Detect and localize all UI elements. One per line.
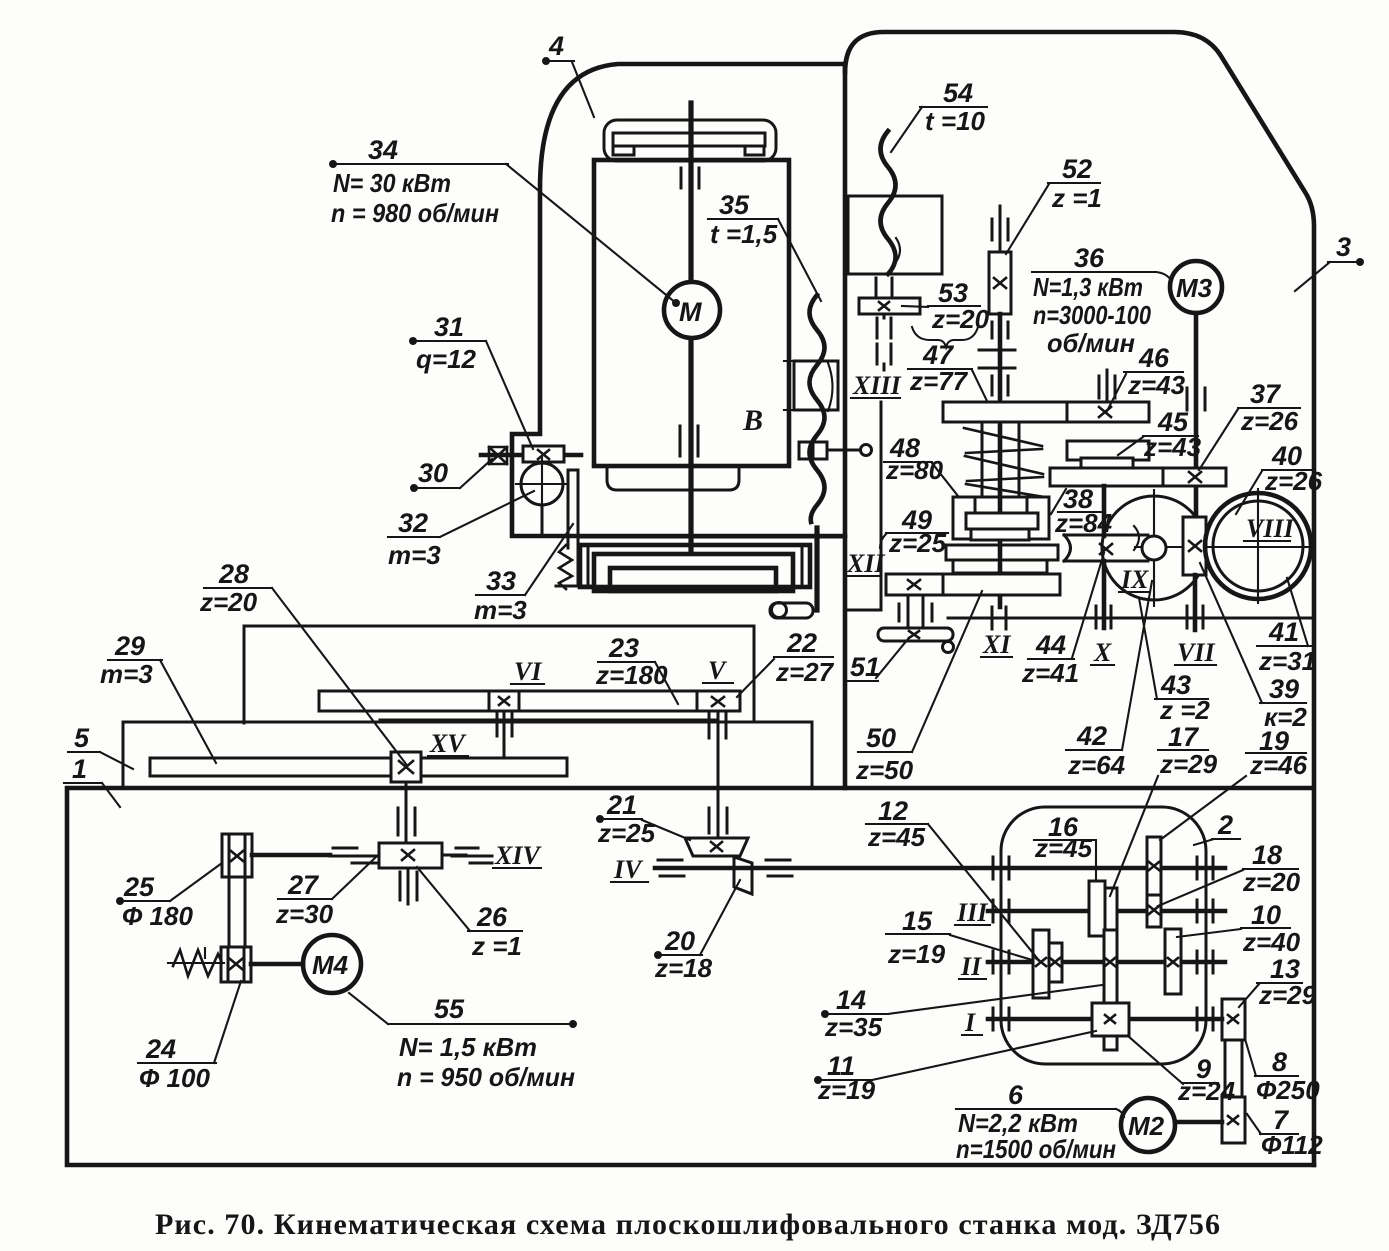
svg-text:IX: IX [1120,565,1149,594]
gear 9 cross [1105,1015,1115,1023]
spring rod left [981,422,984,497]
label 19 [1160,726,1308,840]
svg-text:z=27: z=27 [775,657,835,687]
svg-text:8: 8 [1272,1047,1287,1077]
gear 44 cross [1100,544,1112,554]
svg-text:36: 36 [1074,243,1105,273]
handwheel shaft wire [481,453,581,458]
gear divider 47/46 [1066,402,1069,422]
svg-text:15: 15 [902,906,933,936]
label 3 [1295,232,1363,291]
shaft below nut wire [405,782,408,843]
label 42 [1066,581,1152,780]
svg-text:21: 21 [606,790,637,820]
pulley 24 box [221,947,251,982]
label 29 [100,631,216,763]
shaft label VI [511,657,544,686]
pulley 25 box [222,834,252,877]
svg-text:z=77: z=77 [909,366,969,396]
label 39 [1200,563,1307,732]
label 49 [880,505,948,558]
svg-text:z =1: z =1 [471,931,522,961]
handwheel VIII outer circle [1205,493,1311,599]
shaft XIII bearing pairs [877,318,891,364]
shaft XII sleeve wires [908,595,923,628]
grinding head housing 3 outline [845,32,1314,1165]
svg-text:41: 41 [1268,617,1299,647]
label 4 [544,31,595,117]
gears 47 and 46 bar [943,402,1149,422]
spindle upper bearing [681,168,699,188]
shaft III wire [988,909,1225,914]
gear 52 upper bearing [992,219,1008,240]
clutch 48 hatched beam [975,497,1027,513]
gear 52 shaft stub [999,206,1002,252]
shaft IV break dashes left [658,860,684,876]
svg-text:Ф 100: Ф 100 [139,1063,210,1093]
shaft II wire [988,960,1225,965]
clutch 48 hatched cup right [1027,497,1049,539]
svg-text:z=19: z=19 [817,1075,876,1105]
gear cluster 12/15 boxes [1033,930,1049,998]
wheelhead housing B [594,160,789,466]
label 15 [886,906,1032,969]
label 31 [411,312,534,449]
label 11 [816,1031,1097,1105]
svg-text:z=46: z=46 [1249,750,1308,780]
label 34 [331,135,679,306]
shaft VII wire [1193,575,1198,630]
svg-text:z=84: z=84 [1054,508,1113,538]
svg-text:z=35: z=35 [824,1012,883,1042]
svg-text:N= 30 кВт: N= 30 кВт [333,168,451,198]
gear VI cross [499,697,509,705]
label 26 [417,867,522,961]
shaft XI lower bearing [992,607,1006,629]
shaft III bearings [993,900,1213,922]
svg-text:VIII: VIII [1246,514,1295,543]
label 27 [275,857,376,929]
gear 52 box [989,252,1011,314]
table rack 23 bar [319,691,740,711]
shaft XIV stub right [442,854,466,857]
svg-text:М2: М2 [1128,1111,1165,1141]
worm gear 26 box [379,843,442,868]
svg-text:z=20: z=20 [931,304,990,334]
label 43 [1139,598,1210,725]
gear 26 cross [402,850,414,860]
svg-text:Ф112: Ф112 [1261,1130,1323,1160]
label 9 [1128,1036,1236,1106]
spindle shaft wire [688,103,693,553]
cluster 19/18 divider [1147,894,1161,897]
gear 9 lower hub [1104,1036,1117,1050]
svg-text:z=30: z=30 [275,899,334,929]
bevel 21 cross [711,842,722,851]
pulley 24 cross [230,959,242,969]
motor M3 shaft bearing [1187,388,1205,410]
gear 31 cross [538,450,549,459]
motor M4 shaft wire [251,962,303,967]
shaft label XV [428,729,468,758]
speed gearbox 2 housing [1001,807,1206,1064]
svg-text:n=3000-100: n=3000-100 [1033,300,1151,330]
pulley 25 rim lines [229,834,245,877]
gear cluster 19/18 box [1147,837,1161,927]
svg-text:3: 3 [1336,232,1351,262]
nut 28 box [391,752,421,782]
svg-text:z=180: z=180 [595,660,668,690]
svg-text:22: 22 [786,628,817,658]
gear VI box divider [489,691,519,711]
clutch 48 hatched cup left [953,497,975,539]
label 8 [1245,1039,1320,1105]
shaft II bearings [993,951,1213,973]
column housing 4 outline [512,64,845,536]
label 33 [474,524,573,625]
feed gearbox housing wall [512,433,540,436]
svg-text:30: 30 [418,458,448,488]
crank 51 cross [909,631,919,638]
svg-text:m=3: m=3 [474,595,527,625]
shaft label VIII [1244,514,1295,543]
shaft XII bearing ticks [899,604,932,621]
label 13 [1239,954,1317,1010]
svg-text:50: 50 [866,723,896,753]
dog knob circle [861,445,872,456]
gears 38 and 37 bar [1050,468,1226,486]
gears 49 and 50 bar [886,574,1060,595]
shaft label X [1091,638,1114,667]
label 22 [737,628,835,697]
svg-text:z =2: z =2 [1159,695,1210,725]
label 17 [1110,722,1218,896]
svg-text:z=41: z=41 [1021,658,1079,688]
svg-text:М3: М3 [1176,273,1213,303]
brace 53-47 [912,327,978,347]
svg-text:VI: VI [514,657,542,686]
svg-text:t =1,5: t =1,5 [710,219,778,249]
svg-text:об/мин: об/мин [1047,328,1135,358]
gear 9 box [1092,1003,1129,1036]
svg-text:z=29: z=29 [1258,980,1317,1010]
svg-text:33: 33 [486,566,516,596]
worm screw 54 wavy wire [881,131,896,274]
worm wheel 32 circle [521,463,563,505]
spring rod right [1018,422,1021,497]
column right edge wire [843,64,848,788]
shaft IV right bearing [1197,857,1213,879]
shaft XI mid bearing [992,376,1008,395]
svg-text:z=19: z=19 [887,939,946,969]
gear 37 cross [1189,472,1201,482]
worm 26 lower bearing [400,868,417,904]
svg-text:28: 28 [218,559,249,589]
svg-text:Рис. 70. Кинематическая схе: Рис. 70. Кинематическая схема плоскошлиф… [155,1208,1221,1241]
svg-text:14: 14 [836,985,866,1015]
motor M4 circle [303,935,361,993]
worm wheel IX circle [1102,496,1206,600]
svg-text:23: 23 [608,633,639,663]
label 12 [866,796,1037,958]
label 25 [118,863,223,931]
svg-text:z=26: z=26 [1264,466,1323,496]
shaft IV break dashes right [766,860,792,876]
svg-text:2: 2 [1217,810,1233,840]
svg-text:27: 27 [287,870,320,900]
coupling 30 [489,447,507,464]
worm wheel IX center vertical [1153,490,1155,606]
shaft VII bearing [1187,606,1203,628]
label 38 [1051,484,1139,550]
label 16 [1034,812,1096,880]
label 18 [1158,840,1301,906]
svg-text:XV: XV [429,729,467,758]
svg-text:N=1,3 кВт: N=1,3 кВт [1033,272,1143,302]
clutch 48 inner box lower [971,529,1029,540]
gear 15 box [1049,943,1062,982]
worm wheel 32 crosshair [516,458,568,512]
shaft X bearing [1096,606,1111,628]
handwheel VIII center vertical [1257,489,1259,603]
pulley 25 cross [231,851,243,861]
label 54 [891,78,987,152]
shaft XIV break dashes right [452,848,492,863]
cluster 12/15 crosses [1036,958,1060,966]
column bottom rail wire [578,536,845,539]
brake spring rod [168,948,224,963]
shaft V lower bearing [709,808,727,833]
svg-text:20: 20 [664,926,695,956]
belt 13-7 wires [1225,1040,1242,1097]
wheel guard outer box [580,545,810,587]
shaft VIII center line [1135,546,1312,548]
motor M3 circle [1170,261,1222,313]
label 20 [654,880,740,983]
svg-text:z=20: z=20 [199,587,258,617]
svg-text:52: 52 [1062,154,1092,184]
svg-text:z=50: z=50 [855,755,914,785]
rack spring 33 zigzag [559,545,572,589]
svg-text:z=18: z=18 [654,953,713,983]
label 50 [855,591,982,785]
label 53 [902,278,990,334]
label 45 [1118,407,1202,462]
label 1 [64,754,120,807]
clutch 48 inner box [966,513,1038,529]
handwheel VIII inner circle [1213,501,1303,591]
svg-text:10: 10 [1251,900,1281,930]
shaft X wire [1102,561,1107,628]
svg-text:5: 5 [74,723,90,753]
svg-text:z =1: z =1 [1051,183,1102,213]
label 32 [388,491,534,570]
bed housing 1 outline [67,788,1314,1165]
shaft XI upper wire [998,314,1003,607]
feed screw XV bar [150,758,567,776]
svg-text:1: 1 [72,754,87,784]
svg-text:I: I [964,1008,976,1037]
clutch 39 box [1183,517,1206,575]
svg-text:39: 39 [1269,674,1299,704]
label 36 [1032,243,1171,358]
gear 46 shaft stub [1106,370,1109,402]
shaft IV left bearing [993,857,1009,879]
sleeve cross [1105,958,1115,966]
shaft VI bearing [497,714,512,736]
svg-text:34: 34 [368,135,398,165]
wheel guard inner wall left [587,545,590,587]
spindle lower bearing [680,426,698,456]
pulley 7 box [1222,1097,1245,1143]
bevel gear 21 [685,838,748,856]
shaft I wire [988,1017,1222,1022]
label 24 [138,981,241,1093]
wheelhead bottom cup [607,466,739,490]
svg-text:n = 950 об/мин: n = 950 об/мин [397,1062,575,1092]
clutch 39 cross [1189,541,1201,551]
svg-text:29: 29 [114,631,145,661]
svg-text:z=40: z=40 [1242,927,1301,957]
label 5 [68,723,133,769]
shaft IV wire [655,866,1225,871]
svg-text:N= 1,5 кВт: N= 1,5 кВт [399,1032,537,1062]
svg-text:32: 32 [398,508,428,538]
pulley 24 rim lines [228,947,244,982]
gear 31 box [523,446,564,462]
gear 44 sleeve bar [1064,535,1148,561]
worm 54 side arc [896,238,900,262]
svg-text:М: М [679,297,702,327]
pulley 7 cross [1228,1116,1238,1124]
svg-text:III: III [956,898,988,927]
svg-text:54: 54 [943,78,973,108]
gear 46 cross [1099,407,1111,417]
leadscrew 35 wavy wire [810,295,825,522]
grinding wheel middle box [594,554,793,591]
label 28 [199,559,406,764]
svg-text:44: 44 [1035,630,1066,660]
gear 53 cross [879,302,889,310]
pulley 13 box [1222,999,1245,1040]
svg-text:37: 37 [1250,379,1282,409]
label 30 [412,458,493,491]
svg-text:XI: XI [982,630,1011,659]
shaft label XIII [851,371,902,400]
grinding wheel inner box [610,568,776,591]
gear 52 lower bearing [992,322,1008,338]
dog connector box [799,442,827,459]
shaft label IV [611,855,648,884]
clutch spring zigzag [964,428,1044,497]
svg-text:z=20: z=20 [1242,867,1301,897]
belt 25-24 wires [229,877,245,947]
housing 3 internal wall bottom [948,617,1314,620]
label 37 [1199,379,1300,470]
lube tank box [848,196,942,274]
half clutch plate lower [953,560,1047,573]
svg-text:z=26: z=26 [1240,406,1299,436]
label 21 [597,790,690,848]
leadscrew handle circle [772,603,787,618]
shaft label XIV [493,841,542,870]
svg-text:z=29: z=29 [1159,749,1218,779]
svg-text:М4: М4 [312,950,349,980]
label 14 [823,985,1103,1042]
svg-text:z=24: z=24 [1177,1076,1236,1106]
gear divider 38/37 [1162,468,1165,486]
label 46 [1106,343,1186,413]
half clutch plate upper [946,545,1058,560]
shaft I bearings [993,1008,1213,1030]
wheel guard inner wall right [801,545,804,587]
label 23 [595,633,678,704]
shaft label III [955,898,990,927]
svg-text:XII: XII [846,549,885,578]
svg-text:X: X [1093,638,1112,667]
gear 10 cross [1168,958,1178,966]
label 55 [349,993,576,1092]
shaft XIII wire [881,314,884,610]
leadscrew nut bracket [794,361,838,410]
worm wheel 32 shaft stub [541,505,544,536]
motor M2 circle [1121,1098,1175,1152]
shaft label I [962,1008,982,1037]
crank 51 capsule [878,628,953,641]
svg-text:42: 42 [1076,721,1107,751]
bevel gear 20 [734,857,752,894]
svg-text:24: 24 [145,1034,176,1064]
label 40 [1236,441,1323,514]
nut shaft bearing [398,808,415,835]
svg-text:z=80: z=80 [885,455,944,485]
svg-text:t =10: t =10 [925,106,986,136]
shaft XIV wire [252,853,330,858]
housing 3 internal wall left [846,609,881,612]
label 10 [1177,900,1301,957]
leadscrew lower wire [814,528,819,610]
jaw clutch cross ticks [979,350,1015,368]
svg-text:Ф250: Ф250 [1256,1075,1320,1105]
svg-text:m=3: m=3 [388,540,441,570]
motor M circle [664,282,720,338]
table slot line [380,719,715,722]
shaft label IX [1119,565,1150,594]
svg-text:25: 25 [123,872,155,902]
table housing 5 outline [123,626,812,788]
leadscrew 35 side arc [828,363,833,411]
svg-text:Ф 180: Ф 180 [122,901,193,931]
gear 53 box [859,298,920,314]
svg-text:6: 6 [1008,1080,1024,1110]
shaft label V [703,656,733,685]
gear 49 cross [908,580,920,589]
label 2 [1194,810,1240,845]
gear 52 cross [994,278,1006,288]
rack bracket wires [556,470,590,586]
svg-text:17: 17 [1168,722,1200,752]
shaft XIII upper bearing [876,278,892,296]
gear divider 49/50 [942,574,945,595]
svg-text:V: V [708,656,728,685]
shaft XIV break dashes left [330,848,376,863]
svg-text:m=3: m=3 [100,659,153,689]
svg-text:31: 31 [434,312,464,342]
label 7 [1247,1105,1323,1160]
cluster 19/18 crosses [1149,862,1159,914]
svg-text:z=31: z=31 [1258,646,1316,676]
gear 46 bearing [1099,376,1115,398]
